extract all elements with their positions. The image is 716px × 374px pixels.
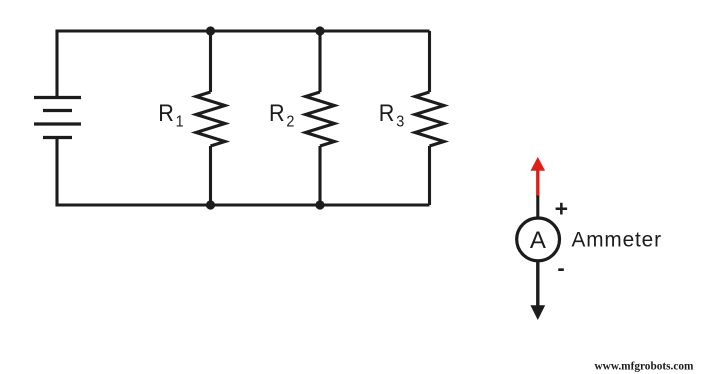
watermark www.mfgrobots.com: [595, 360, 695, 372]
wire: ammeter top lead black segment: [536, 196, 539, 219]
battery: long plate 2: [34, 122, 81, 125]
svg-text:R3: R3: [379, 99, 404, 130]
wire: bottom bus from battery - to R3 bottom: [56, 203, 430, 206]
wire: R1 branch upper lead: [209, 31, 212, 92]
resistor R3 zigzag body: [415, 92, 444, 146]
wire: top bus from battery + to R3 top: [56, 29, 430, 32]
battery: short plate 2 (-): [43, 136, 72, 139]
wire: R2 branch upper lead: [318, 31, 321, 92]
label - polarity mark: [557, 255, 564, 280]
battery: short plate 1: [43, 109, 72, 112]
label R2: [269, 99, 294, 130]
svg-text:-: -: [557, 255, 564, 280]
ammeter red current arrow (top lead, arrowhead up): [531, 157, 546, 197]
wire: R1 branch lower lead: [209, 146, 212, 205]
resistor R2 zigzag body: [306, 92, 335, 146]
svg-text:www.mfgrobots.com: www.mfgrobots.com: [595, 360, 695, 372]
node: bottom junction of R2 branch: [315, 200, 324, 209]
svg-text:+: +: [555, 195, 568, 221]
label Ammeter: [572, 228, 662, 251]
node: top junction of R1 branch: [206, 26, 215, 35]
wire: left leg, battery - plate down to bottom corner: [55, 138, 58, 207]
svg-text:R1: R1: [158, 99, 183, 130]
node: top junction of R2 branch: [315, 26, 324, 35]
ammeter letter A: [530, 227, 546, 254]
label R1: [158, 99, 183, 130]
svg-text:A: A: [530, 227, 546, 254]
wire: R2 branch lower lead: [318, 146, 321, 205]
battery: long plate 1 (+): [34, 96, 81, 99]
wire: R3 branch upper lead (right leg top): [428, 31, 431, 92]
label + polarity mark: [555, 195, 568, 221]
svg-text:R2: R2: [269, 99, 294, 130]
svg-text:Ammeter: Ammeter: [572, 228, 662, 251]
node: bottom junction of R1 branch: [206, 200, 215, 209]
ammeter M1 circle: [517, 218, 560, 261]
wire: R3 branch lower lead (right leg bottom): [428, 146, 431, 205]
resistor R1 zigzag body: [196, 92, 225, 146]
label R3: [379, 99, 404, 130]
wire: left leg, top corner down to battery + plate: [55, 30, 58, 98]
ammeter bottom lead black arrow (arrowhead down): [530, 261, 545, 321]
